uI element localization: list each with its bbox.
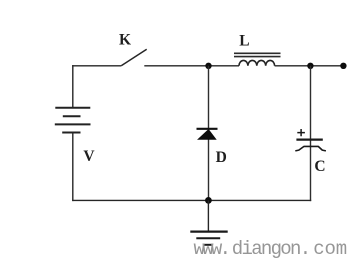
- svg-text:L: L: [239, 33, 249, 50]
- capacitor C: curved bottom plate: [295, 146, 326, 151]
- wire: bottom horizontal rail: [72, 199, 311, 201]
- ground: [190, 232, 227, 245]
- wire: from inductor right end to output terminal: [275, 65, 344, 67]
- inductor L: four coil arcs: [239, 60, 275, 65]
- battery V (two cells: long/short plates): [55, 108, 91, 133]
- wire: top-left horizontal from corner to switch left contact: [72, 65, 121, 67]
- wire: ground stub: [207, 200, 209, 231]
- junction dot: ground node on bottom rail: [205, 197, 212, 204]
- diode D: filled triangle (pointing up): [198, 130, 215, 140]
- wire: capacitor branch vertical (top junction down to bottom corner): [310, 66, 312, 201]
- svg-text:C: C: [314, 158, 325, 175]
- wire: left vertical from battery bottom to bottom-left corner: [72, 133, 74, 202]
- inductor L: double core lines: [234, 53, 281, 56]
- polarity mark +: [297, 129, 305, 136]
- capacitor C: straight top plate: [296, 139, 322, 141]
- wire: from switch right contact to inductor left end: [144, 65, 239, 67]
- wire: left vertical from top-left corner down to battery top: [72, 65, 74, 107]
- svg-text:K: K: [119, 32, 131, 49]
- output terminal dot: [340, 63, 346, 69]
- diode D: cathode bar: [197, 128, 218, 130]
- svg-text:www.diangon.com: www.diangon.com: [194, 238, 347, 260]
- switch K (open blade): [121, 49, 147, 66]
- wire: diode branch vertical (switch node down to bottom rail): [208, 66, 210, 201]
- svg-text:D: D: [216, 149, 227, 166]
- junction dot: switch node (diode top): [205, 63, 211, 69]
- svg-text:V: V: [83, 148, 95, 165]
- junction dot: inductor output / capacitor top: [307, 63, 313, 69]
